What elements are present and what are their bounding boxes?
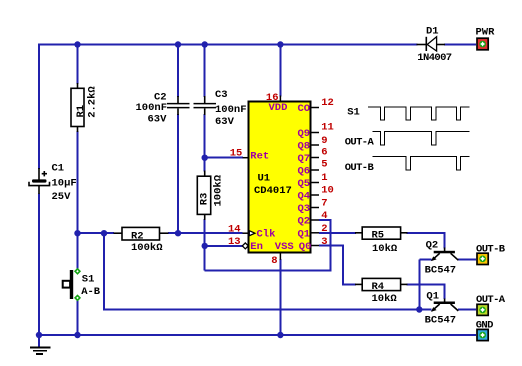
wire R4 to Q1 base xyxy=(407,284,445,299)
wire VSS pin 8 to ground rail xyxy=(279,259,281,335)
node junction Q1 emitter xyxy=(416,306,422,312)
wire R1 top xyxy=(77,45,79,85)
diode D1 xyxy=(417,26,452,64)
node junction emitter branch xyxy=(101,230,107,236)
node junction button xyxy=(74,230,80,236)
IC U1 CD4017 xyxy=(249,102,311,253)
wire Q1 collector to OUT-A xyxy=(458,309,476,311)
svg-text:R1: R1 xyxy=(75,105,87,118)
waveform OUT-B xyxy=(345,156,470,174)
svg-text:1: 1 xyxy=(321,172,327,184)
pin 9 Q8 xyxy=(298,135,328,153)
svg-text:100nF: 100nF xyxy=(215,104,247,116)
svg-text:Q7: Q7 xyxy=(298,153,311,165)
node junction S1 ground xyxy=(74,332,80,338)
svg-text:100nF: 100nF xyxy=(136,102,168,114)
svg-text:8: 8 xyxy=(271,255,277,267)
resistor R2 xyxy=(114,227,169,254)
svg-text:2.2kΩ: 2.2kΩ xyxy=(87,86,99,118)
svg-text:En: En xyxy=(250,241,263,253)
pin 16 VDD stub xyxy=(266,92,288,114)
connector GND xyxy=(476,319,493,340)
resistor R4 xyxy=(355,278,408,304)
svg-text:13: 13 xyxy=(228,236,241,248)
pin 10 Q4 xyxy=(298,185,334,203)
svg-text:25V: 25V xyxy=(52,191,72,203)
pin 1 Q5 xyxy=(298,172,328,190)
svg-text:S1: S1 xyxy=(347,106,360,118)
svg-text:2: 2 xyxy=(321,223,327,235)
svg-text:14: 14 xyxy=(228,223,241,235)
pin 14 Clk xyxy=(228,223,275,240)
svg-text:GND: GND xyxy=(476,319,493,331)
svg-text:4: 4 xyxy=(321,210,327,222)
wire ground rail xyxy=(39,334,476,336)
svg-text:BC547: BC547 xyxy=(425,314,457,326)
wire reset node to Ret pin xyxy=(205,157,243,159)
node junction reset xyxy=(202,155,208,161)
svg-text:VSS: VSS xyxy=(275,241,294,253)
connector OUT-B xyxy=(476,243,506,264)
wire Q1 pin 2 to R5 xyxy=(319,232,356,234)
svg-text:BC547: BC547 xyxy=(425,264,457,276)
transistor Q2 xyxy=(425,239,459,276)
svg-text:Ret: Ret xyxy=(250,151,269,163)
wire S1 bottom to ground rail xyxy=(77,300,79,335)
svg-text:Q4: Q4 xyxy=(298,191,311,203)
wire Q2 emitter to bus xyxy=(418,260,420,310)
waveform OUT-A xyxy=(345,131,470,148)
svg-text:R2: R2 xyxy=(131,230,144,242)
svg-text:10µF: 10µF xyxy=(52,178,77,190)
pin 2 Q1 xyxy=(298,223,328,240)
wire Q2 collector to OUT-B xyxy=(458,259,476,261)
svg-text:Q0: Q0 xyxy=(299,241,312,253)
wire left vertical below C1 xyxy=(38,194,40,336)
svg-text:9: 9 xyxy=(321,135,327,147)
wire C2 bottom to clock node xyxy=(177,114,179,233)
wire top power rail xyxy=(39,45,418,170)
node junction C3 top rail xyxy=(202,41,208,47)
svg-text:R4: R4 xyxy=(372,281,385,293)
ground xyxy=(30,335,51,354)
svg-text:OUT-B: OUT-B xyxy=(476,243,506,255)
svg-text:5: 5 xyxy=(321,159,327,171)
connector PWR xyxy=(476,26,496,50)
svg-text:R3: R3 xyxy=(198,193,210,206)
node junction ground left xyxy=(36,332,42,338)
wire R1 bottom to node xyxy=(77,131,79,269)
resistor R3 xyxy=(197,171,224,221)
svg-text:Clk: Clk xyxy=(257,229,276,241)
svg-text:U1: U1 xyxy=(258,173,271,185)
svg-text:100kΩ: 100kΩ xyxy=(212,174,224,206)
svg-text:15: 15 xyxy=(230,148,243,160)
capacitor C3 xyxy=(194,89,247,128)
svg-text:3: 3 xyxy=(321,236,327,248)
pin 6 Q7 xyxy=(298,147,328,166)
svg-text:Q2: Q2 xyxy=(298,216,311,228)
svg-text:Q1: Q1 xyxy=(426,291,439,303)
wire Q2 emitter horizontal xyxy=(419,259,431,261)
svg-text:OUT-B: OUT-B xyxy=(345,162,375,174)
wire C2 top xyxy=(177,45,179,98)
svg-text:CD4017: CD4017 xyxy=(254,185,292,197)
svg-text:D1: D1 xyxy=(426,26,439,38)
svg-text:Q6: Q6 xyxy=(298,166,311,178)
svg-text:Q9: Q9 xyxy=(298,128,311,140)
transistor Q1 xyxy=(425,291,459,327)
svg-text:10: 10 xyxy=(321,185,334,197)
svg-text:C1: C1 xyxy=(52,163,65,175)
wire C3 top xyxy=(204,45,206,98)
svg-text:10kΩ: 10kΩ xyxy=(372,293,398,305)
svg-text:11: 11 xyxy=(321,122,334,134)
svg-text:63V: 63V xyxy=(215,116,235,128)
svg-text:Q3: Q3 xyxy=(298,203,311,215)
connector OUT-A xyxy=(476,294,506,315)
svg-text:Q1: Q1 xyxy=(298,228,311,240)
wire C3 bottom to reset node xyxy=(204,114,206,172)
pin 13 En xyxy=(228,236,263,253)
wire node to R2 xyxy=(78,232,115,234)
svg-text:100kΩ: 100kΩ xyxy=(131,242,163,254)
wire R2 to Clk pin xyxy=(168,232,243,234)
node junction C2 top rail xyxy=(175,41,181,47)
svg-text:Q5: Q5 xyxy=(298,178,311,190)
node junction enable xyxy=(202,243,208,249)
node junction VSS ground xyxy=(277,332,283,338)
wire enable node to Q2 output xyxy=(205,220,331,271)
pin 4 Q2 xyxy=(298,210,328,228)
pin 7 Q3 xyxy=(298,198,328,216)
svg-text:A-B: A-B xyxy=(81,286,101,298)
switch S1 xyxy=(63,268,101,302)
wire Q0 pin 3 to R4 xyxy=(319,246,356,285)
svg-text:10kΩ: 10kΩ xyxy=(372,243,398,255)
svg-text:7: 7 xyxy=(321,198,327,210)
wire diode to PWR xyxy=(444,44,476,46)
waveform S1 xyxy=(347,106,469,120)
svg-text:63V: 63V xyxy=(148,114,168,126)
capacitor C1 xyxy=(29,163,77,204)
wire emitter bus xyxy=(104,233,432,309)
svg-text:S1: S1 xyxy=(82,273,95,285)
svg-text:R5: R5 xyxy=(372,230,385,242)
node junction C2 clock xyxy=(175,230,181,236)
svg-text:16: 16 xyxy=(266,92,279,104)
pin 8 VSS stub xyxy=(271,241,293,267)
svg-text:CO: CO xyxy=(298,103,311,115)
node junction VDD rail xyxy=(277,41,283,47)
node junction R1 top rail xyxy=(74,41,80,47)
resistor R1 xyxy=(71,83,99,132)
pin 5 Q6 xyxy=(298,159,328,178)
svg-text:PWR: PWR xyxy=(476,26,496,38)
wire R5 to Q2 base xyxy=(407,233,445,249)
pin 11 Q9 xyxy=(298,122,334,141)
svg-text:Q2: Q2 xyxy=(426,239,439,251)
svg-text:12: 12 xyxy=(321,97,334,109)
resistor R5 xyxy=(355,227,408,255)
wire enable node to En pin xyxy=(205,245,243,247)
wire VDD pin 16 xyxy=(279,45,281,97)
svg-text:Q8: Q8 xyxy=(298,141,311,153)
pin 15 Ret xyxy=(230,148,270,163)
wire R3 bottom to enable node xyxy=(204,219,206,271)
svg-text:C3: C3 xyxy=(215,89,228,101)
svg-text:OUT-A: OUT-A xyxy=(345,137,375,149)
pin 12 CO xyxy=(298,97,334,115)
svg-text:1N4007: 1N4007 xyxy=(417,52,452,64)
svg-text:6: 6 xyxy=(321,147,327,159)
svg-text:OUT-A: OUT-A xyxy=(476,294,506,306)
pin 3 Q0 xyxy=(299,236,328,253)
capacitor C2 xyxy=(136,92,190,126)
